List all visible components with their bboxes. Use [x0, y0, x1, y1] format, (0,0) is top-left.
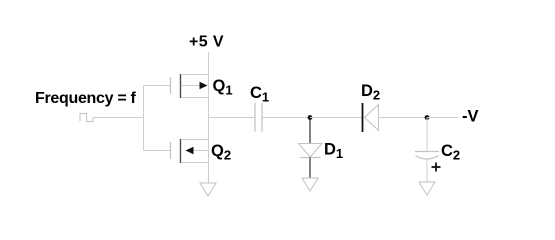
wire D2 to node B [379, 117, 428, 119]
wire gate branch vertical [143, 86, 145, 151]
wire Q1 gate lead [144, 85, 171, 87]
plus polarity mark [432, 163, 441, 172]
svg-text:Frequency = f: Frequency = f [35, 90, 137, 107]
wire +5V rail down through inverter to ground [208, 52, 210, 183]
wire Q2 gate lead [144, 150, 171, 152]
wire node B to -V [427, 117, 458, 119]
wire inverter output to C1 [209, 117, 256, 119]
diode D1 [299, 144, 323, 158]
capacitor C2 (polarized) [415, 152, 439, 160]
ground under D1 [302, 178, 318, 191]
transistor Q2 (NMOS) [171, 139, 209, 163]
wire D1 to ground [309, 158, 311, 179]
node B junction dot [425, 115, 430, 120]
svg-text:+5 V: +5 V [189, 34, 224, 51]
capacitor C1 [255, 103, 262, 132]
transistor Q1 (PMOS) [171, 74, 209, 98]
square-wave input symbol [80, 114, 93, 122]
ground under Q2 [200, 183, 216, 196]
wire node A down to D1 [309, 118, 311, 144]
diode D2 [363, 103, 379, 132]
svg-text:-V: -V [462, 108, 479, 126]
wire node A to D2 [310, 117, 362, 119]
wire node B down to C2 [426, 118, 428, 152]
ground under C2 [419, 182, 435, 195]
wire C1 to node A [262, 117, 310, 119]
wire C2 to ground [426, 160, 428, 183]
node A junction dot [308, 115, 313, 120]
wire input to gate branch [93, 117, 144, 119]
